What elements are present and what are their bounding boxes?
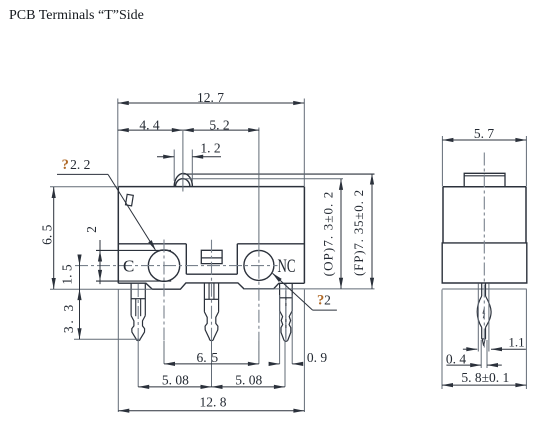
svg-text:(OP)7. 3±0. 2: (OP)7. 3±0. 2 [321,191,336,277]
svg-text:1. 2: 1. 2 [200,141,220,156]
svg-text:2: 2 [84,226,99,233]
svg-text:2: 2 [324,292,331,307]
svg-text:12. 8: 12. 8 [200,395,227,410]
svg-text:5. 8±0. 1: 5. 8±0. 1 [461,370,509,385]
svg-text:5. 08: 5. 08 [235,373,262,388]
svg-text:PCB Terminals “T”Side: PCB Terminals “T”Side [9,8,144,23]
svg-text:?: ? [62,157,69,173]
svg-text:0. 9: 0. 9 [307,350,328,365]
svg-text:0. 4: 0. 4 [446,351,467,366]
svg-text:5: 5 [211,350,218,365]
svg-text:6. 5: 6. 5 [39,224,54,245]
svg-text:?: ? [317,292,324,308]
svg-text:5. 08: 5. 08 [162,373,189,388]
svg-text:12. 7: 12. 7 [197,90,224,105]
svg-text:4. 4: 4. 4 [139,118,160,133]
svg-text:2. 2: 2. 2 [70,157,90,172]
svg-text:C: C [123,257,134,276]
svg-text:3. 3: 3. 3 [61,302,76,333]
svg-text:(FP)7. 35±0. 2: (FP)7. 35±0. 2 [351,189,366,276]
svg-text:5. 2: 5. 2 [209,118,229,133]
svg-text:1.1: 1.1 [508,334,524,349]
svg-text:6.: 6. [196,350,206,365]
svg-text:1. 5: 1. 5 [60,264,75,285]
svg-text:NC: NC [278,256,296,277]
svg-text:5. 7: 5. 7 [474,126,495,141]
